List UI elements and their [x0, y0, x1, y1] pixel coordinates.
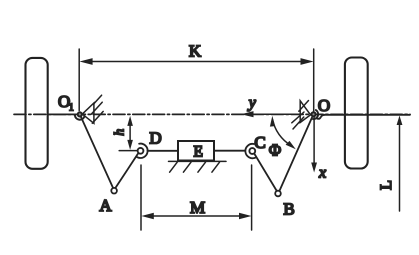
label h (rotated) [111, 129, 126, 136]
label O1 [58, 92, 74, 114]
wire tie rod E to C [214, 150, 245, 152]
joint B [275, 191, 281, 197]
wire link C to B [255, 154, 277, 191]
svg-text:K: K [189, 42, 202, 61]
pivot support triangle at O with hatching [292, 101, 311, 130]
dimension M extension line right [251, 165, 253, 230]
wire left spindle [48, 113, 75, 115]
label E [193, 144, 202, 161]
dimension M extension line left [140, 165, 142, 230]
svg-text:E: E [193, 144, 202, 161]
label C [254, 133, 265, 152]
joint D pin and outer ring [137, 144, 147, 158]
wire knuckle arm B to O [280, 118, 313, 191]
fixed block E [178, 141, 214, 161]
svg-text:x: x [318, 165, 326, 182]
joint C pin and outer ring [245, 144, 255, 158]
label A [99, 196, 112, 215]
label B [283, 199, 294, 218]
label L (rotated) [378, 180, 395, 190]
x axis arrow [311, 117, 317, 173]
right wheel tire [345, 58, 368, 169]
label Phi [269, 140, 281, 159]
label O [318, 96, 330, 115]
wire link A to D [115, 154, 138, 189]
label M [190, 198, 205, 217]
wire knuckle arm O1 to A [81, 117, 113, 188]
dimension K extension line right [313, 49, 315, 111]
pivot O pin and outer ring [311, 110, 324, 119]
dimension L line with arrow [397, 116, 403, 212]
dimension K extension line left [78, 49, 80, 111]
ground line under E with hatching [169, 161, 227, 172]
dimension K line with arrows [80, 58, 314, 65]
svg-text:L: L [378, 180, 395, 190]
wire tie rod D to E [148, 150, 179, 152]
svg-text:M: M [190, 198, 205, 217]
pivot support triangle at O1 with hatching [82, 95, 103, 123]
left wheel tire [26, 58, 48, 169]
svg-text:O: O [318, 96, 330, 115]
dimension h line with arrows [127, 116, 133, 150]
dimension M line with arrows [141, 213, 251, 219]
joint A [111, 188, 117, 194]
label y [247, 95, 257, 112]
svg-text:A: A [99, 196, 112, 215]
svg-text:D: D [149, 129, 161, 148]
wire right spindle [322, 114, 410, 116]
svg-text:C: C [254, 133, 265, 152]
label D [149, 129, 161, 148]
y axis arrow [241, 111, 300, 117]
wire centerline axle axis (dash-dot) [14, 113, 410, 115]
label x [318, 165, 326, 182]
label K [189, 42, 202, 61]
pivot O1 pin and outer ring [75, 112, 84, 119]
svg-text:B: B [283, 199, 294, 218]
wire short reference line at D level [119, 150, 137, 152]
angle Phi arc with arrows [270, 116, 296, 150]
svg-text:h: h [111, 129, 126, 136]
svg-text:Φ: Φ [269, 140, 281, 159]
svg-text:y: y [247, 95, 257, 112]
